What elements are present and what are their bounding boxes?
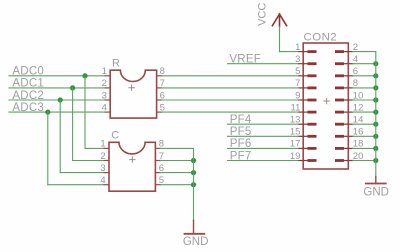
svg-text:1: 1 [102, 66, 107, 77]
junction on C GND bus [191, 170, 196, 175]
wire net from CON2 pin 10 to GND bus [353, 99, 376, 101]
wire net ADC1 vertical down to C pin 2 row [72, 88, 74, 161]
ground GND (right) stub [375, 176, 377, 183]
junction on C GND bus [191, 158, 196, 163]
svg-text:7: 7 [295, 78, 300, 89]
capacitor network C (body) [109, 142, 155, 191]
CON2 pin 2 [335, 42, 358, 53]
CON2 pin 13 [290, 115, 317, 126]
wire net from C pin 6 to GND bus [160, 172, 193, 174]
wire net from R pin 8 to CON2 [162, 75, 299, 77]
junction GND bus at pin 16 [373, 134, 378, 139]
CON2 pin 9 [295, 90, 316, 101]
wire net ADC3 horizontal into C pin 4 [48, 184, 104, 186]
wire net from CON2 pin 12 to GND bus [353, 111, 376, 113]
wire net PF7 to CON2 pin 19 [228, 160, 300, 162]
CON2 pin 14 [335, 115, 363, 126]
junction on net ADC2 [58, 97, 63, 102]
svg-text:13: 13 [290, 115, 301, 126]
wire net from R pin 5 to CON2 [162, 111, 299, 113]
junction GND bus at pin 6 [373, 73, 378, 78]
svg-text:3: 3 [102, 90, 107, 101]
ground GND (below C) stub [193, 220, 195, 233]
CON2 pin 12 [335, 102, 363, 113]
wire net ADC1 from label to R pin 2 [9, 87, 105, 89]
wire C GND bus vertical [193, 148, 195, 220]
C pin 3 [104, 172, 109, 174]
wire GND bus vertical (right) [375, 52, 377, 177]
wire net VCC vertical [279, 27, 281, 52]
CON2 pin 11 [291, 102, 317, 113]
wire net from R pin 6 to CON2 [162, 99, 299, 101]
wire net from CON2 pin 8 to GND bus [353, 87, 376, 89]
svg-text:3: 3 [100, 163, 105, 174]
svg-text:17: 17 [290, 139, 301, 150]
CON2 pin 10 [335, 90, 363, 101]
junction GND bus at pin 4 [373, 61, 378, 66]
svg-text:CON2: CON2 [304, 32, 338, 44]
ground GND (right) bar [366, 183, 386, 185]
svg-text:19: 19 [290, 151, 301, 162]
svg-text:2: 2 [100, 151, 105, 162]
wire net VCC to CON2 pin 1 [280, 51, 300, 53]
svg-text:3: 3 [295, 54, 300, 65]
C pin 4 [104, 184, 109, 186]
wire net from CON2 pin 20 to GND bus [353, 160, 376, 162]
CON2 pin 19 [290, 151, 317, 162]
svg-text:1: 1 [295, 42, 300, 53]
C pin 7 [155, 160, 160, 162]
CON2 pin 4 [335, 54, 358, 65]
wire net VREF to CON2 pin 3 [228, 63, 300, 65]
C pin 5 [155, 184, 160, 186]
wire net from CON2 pin 16 to GND bus [353, 135, 376, 137]
CON2 pin 20 [335, 151, 363, 162]
R pin 8 [157, 75, 162, 77]
ground GND (below C) bar [185, 233, 205, 235]
R pin 6 [157, 99, 162, 101]
svg-text:VCC: VCC [256, 3, 268, 26]
CON2 pin 3 [295, 54, 316, 65]
junction on net ADC0 [82, 73, 87, 78]
wire net ADC0 horizontal into C pin 1 [85, 147, 104, 149]
C origin cross [130, 157, 135, 162]
CON2 pin 5 [295, 66, 316, 77]
junction GND bus at pin 12 [373, 110, 378, 115]
R pin 2 [105, 87, 110, 89]
C pin 8 [155, 147, 160, 149]
svg-text:GND: GND [363, 187, 389, 199]
junction GND bus at pin 14 [373, 122, 378, 127]
CON2 pin 8 [335, 78, 358, 89]
junction GND bus at pin 20 [373, 158, 378, 163]
CON2 pin 16 [335, 127, 363, 138]
CON2 origin cross [324, 98, 329, 103]
C pin 6 [155, 172, 160, 174]
junction on C GND bus [191, 182, 196, 187]
svg-text:15: 15 [290, 127, 301, 138]
C pin 1 [104, 147, 109, 149]
junction GND bus at pin 10 [373, 97, 378, 102]
wire net from CON2 pin 14 to GND bus [353, 123, 376, 125]
wire net ADC2 vertical down to C pin 3 row [59, 100, 61, 173]
svg-text:2: 2 [102, 78, 107, 89]
CON2 pin 15 [290, 127, 317, 138]
junction GND bus at pin 8 [373, 85, 378, 90]
svg-text:C: C [111, 129, 119, 141]
wire net from CON2 pin 4 to GND bus [353, 63, 376, 65]
svg-text:R: R [112, 57, 120, 69]
wire net PF4 to CON2 pin 13 [228, 123, 300, 125]
connector CON2 (body) [303, 43, 348, 169]
wire net from C pin 8 to GND bus [160, 147, 193, 149]
CON2 pin 1 [295, 42, 316, 53]
wire net ADC3 from label to R pin 4 [9, 111, 105, 113]
wire net PF5 to CON2 pin 15 [228, 135, 300, 137]
svg-text:5: 5 [295, 66, 300, 77]
R pin 5 [157, 111, 162, 113]
wire net ADC1 horizontal into C pin 2 [73, 160, 104, 162]
CON2 pin 6 [335, 66, 358, 77]
wire net ADC3 vertical down to C pin 4 row [47, 112, 49, 185]
wire net from C pin 7 to GND bus [160, 160, 193, 162]
wire net from CON2 pin 6 to GND bus [353, 75, 376, 77]
R pin 1 [105, 75, 110, 77]
power symbol VCC arrow [272, 14, 286, 27]
wire net from CON2 pin 18 to GND bus [353, 147, 376, 149]
svg-text:9: 9 [295, 90, 300, 101]
junction on net ADC3 [45, 110, 50, 115]
CON2 pin 17 [290, 139, 317, 150]
R pin 7 [157, 87, 162, 89]
CON2 pin 18 [335, 139, 363, 150]
svg-text:4: 4 [100, 175, 105, 186]
wire net from R pin 7 to CON2 [162, 87, 299, 89]
resistor network R (body) [110, 70, 156, 118]
svg-text:1: 1 [100, 139, 105, 150]
wire net ADC0 vertical down to C pin 1 row [84, 76, 86, 149]
wire net from C pin 5 to GND bus [160, 184, 193, 186]
R pin 4 [105, 111, 110, 113]
svg-text:GND: GND [183, 236, 209, 248]
R pin 3 [105, 99, 110, 101]
svg-text:11: 11 [291, 102, 301, 113]
wire net PF6 to CON2 pin 17 [228, 147, 300, 149]
junction on net ADC1 [70, 85, 75, 90]
R origin cross [129, 85, 134, 90]
C pin 2 [104, 160, 109, 162]
svg-text:4: 4 [102, 102, 107, 113]
wire net from CON2 pin 2 to GND bus [353, 51, 376, 53]
wire net ADC2 from label to R pin 3 [9, 99, 105, 101]
junction GND bus at pin 18 [373, 146, 378, 151]
wire net ADC2 horizontal into C pin 3 [60, 172, 104, 174]
wire net ADC0 from label to R pin 1 [9, 75, 105, 77]
CON2 pin 7 [295, 78, 316, 89]
